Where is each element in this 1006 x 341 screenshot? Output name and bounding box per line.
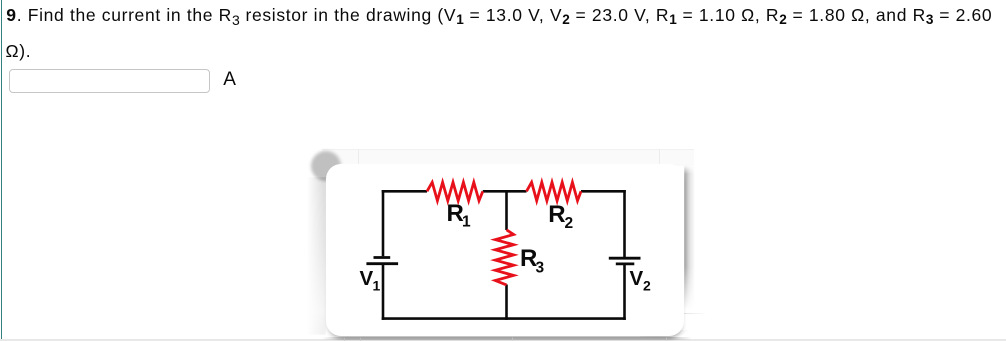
resistor R1 zigzag <box>427 182 483 200</box>
resistor R2 zigzag <box>527 182 582 200</box>
question text line 2 <box>6 41 32 62</box>
faint vertical line left above card <box>358 149 359 164</box>
wire: top-right segment <box>581 190 626 193</box>
svg-text:1: 1 <box>373 278 381 294</box>
wire: middle branch upper <box>505 190 508 230</box>
gray blurred circle behind card top-left corner <box>311 151 341 181</box>
svg-text:V: V <box>630 267 644 290</box>
battery V1 short plate <box>374 256 391 259</box>
teal left page border <box>1 0 3 341</box>
label R3 <box>520 245 545 277</box>
darker divider segment under image card <box>322 337 692 339</box>
wire: top-middle segment <box>483 190 527 193</box>
resistor R3 zigzag <box>495 230 513 285</box>
wire: left branch lower <box>382 264 385 320</box>
wire: middle branch lower <box>505 285 508 320</box>
label R1 <box>447 200 472 231</box>
unit label A <box>223 69 236 91</box>
right drop shadow of image card <box>684 165 695 310</box>
faint vertical line right above card <box>659 149 660 164</box>
label R2 <box>548 201 573 232</box>
svg-text:R: R <box>548 201 565 228</box>
label V2 <box>630 267 652 294</box>
answer input box <box>9 69 210 93</box>
question text line 1 <box>6 5 992 26</box>
wire: right branch upper <box>623 190 626 258</box>
faint tick marks in bottom strip <box>344 337 345 341</box>
wire: bottom rail <box>382 317 626 320</box>
wire: top-left segment <box>382 190 427 193</box>
svg-text:V: V <box>360 267 374 290</box>
battery V2 short plate <box>616 262 635 265</box>
wire: left branch upper <box>382 190 385 256</box>
battery V1 long plate <box>366 262 398 265</box>
white rounded image card <box>326 164 684 336</box>
svg-text:3: 3 <box>536 260 545 277</box>
soft shadow band along card left edge <box>307 177 326 335</box>
svg-text:2: 2 <box>643 278 651 294</box>
battery V2 long plate <box>609 257 641 260</box>
light band behind top of image card <box>322 149 694 166</box>
bottom-right corner shadow of image card <box>640 330 690 339</box>
bottom page divider line <box>0 339 1006 341</box>
wire: right branch lower <box>623 264 626 320</box>
faint horizontal line right of card <box>683 313 707 314</box>
svg-text:1: 1 <box>462 214 471 231</box>
svg-text:2: 2 <box>565 215 574 232</box>
label V1 <box>360 267 381 294</box>
